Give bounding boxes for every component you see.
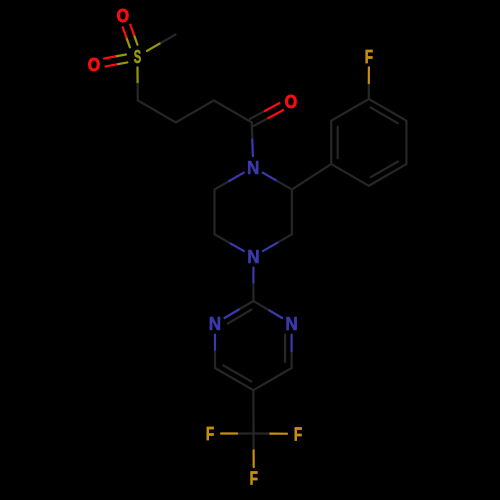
svg-text:F: F [294,424,302,444]
piperazine C2-C3 bond [291,190,293,235]
piperazine N4-C5 bond [229,243,244,251]
svg-text:S: S [134,47,141,67]
C-F bond (fluorophenyl) [368,83,370,99]
pyrimidine C6=C5... C5=C4 double [215,368,253,390]
svg-text:F: F [365,47,373,67]
piperazine N4 - pyrimidine C2 bond [252,268,254,285]
piperazine C6-N1 bond [215,181,230,189]
benzene C5=C6 double bond [369,164,407,186]
pyrimidine N3-C2 bond [268,310,282,319]
S-CH2 bond [136,67,138,84]
benzene C4-C5 bond [405,121,407,164]
pyrimidine C2=N1 double bond [239,301,254,310]
benzene C2-C3 bond [331,99,369,121]
S=O double bond (left O) [115,55,126,57]
S-CH3 bond [147,43,161,51]
piperazine C5-C6 bond [213,190,215,235]
piperazine-phenyl bond [292,164,331,189]
svg-text:O: O [88,55,100,75]
C-F bond (left F) [237,432,253,434]
piperazine C3-N4 bond [277,234,292,242]
benzene C6-C1 bond [331,164,369,186]
piperazine N1-C2 bond [263,173,278,181]
pyrimidine N1-C6 bond [214,335,216,352]
svg-text:N: N [247,247,259,267]
C=O carbonyl double bond [254,118,269,126]
CH2-CH2 bond [138,100,176,122]
pyrimidine C4=N3 double bond [291,351,293,368]
benzene C1=C2 double bond [330,121,332,164]
C5-CF3 bond [252,390,254,433]
svg-text:F: F [206,424,214,444]
benzene C3=C4 double bond [369,99,407,121]
C-F bond (right F) [254,432,271,434]
svg-text:N: N [247,158,259,178]
svg-text:O: O [117,6,129,26]
amide C-N bond [251,122,254,139]
CH2-CH2 bond [176,100,214,122]
svg-text:N: N [209,314,221,334]
svg-text:F: F [250,469,258,489]
svg-text:O: O [285,92,297,112]
svg-text:N: N [285,314,297,334]
pyrimidine C5-C4 bond [253,368,291,390]
CH2-C(=O) bond [214,100,252,122]
C-F bond (bottom F) [252,434,254,451]
S=O double bond (top O) [134,35,138,45]
